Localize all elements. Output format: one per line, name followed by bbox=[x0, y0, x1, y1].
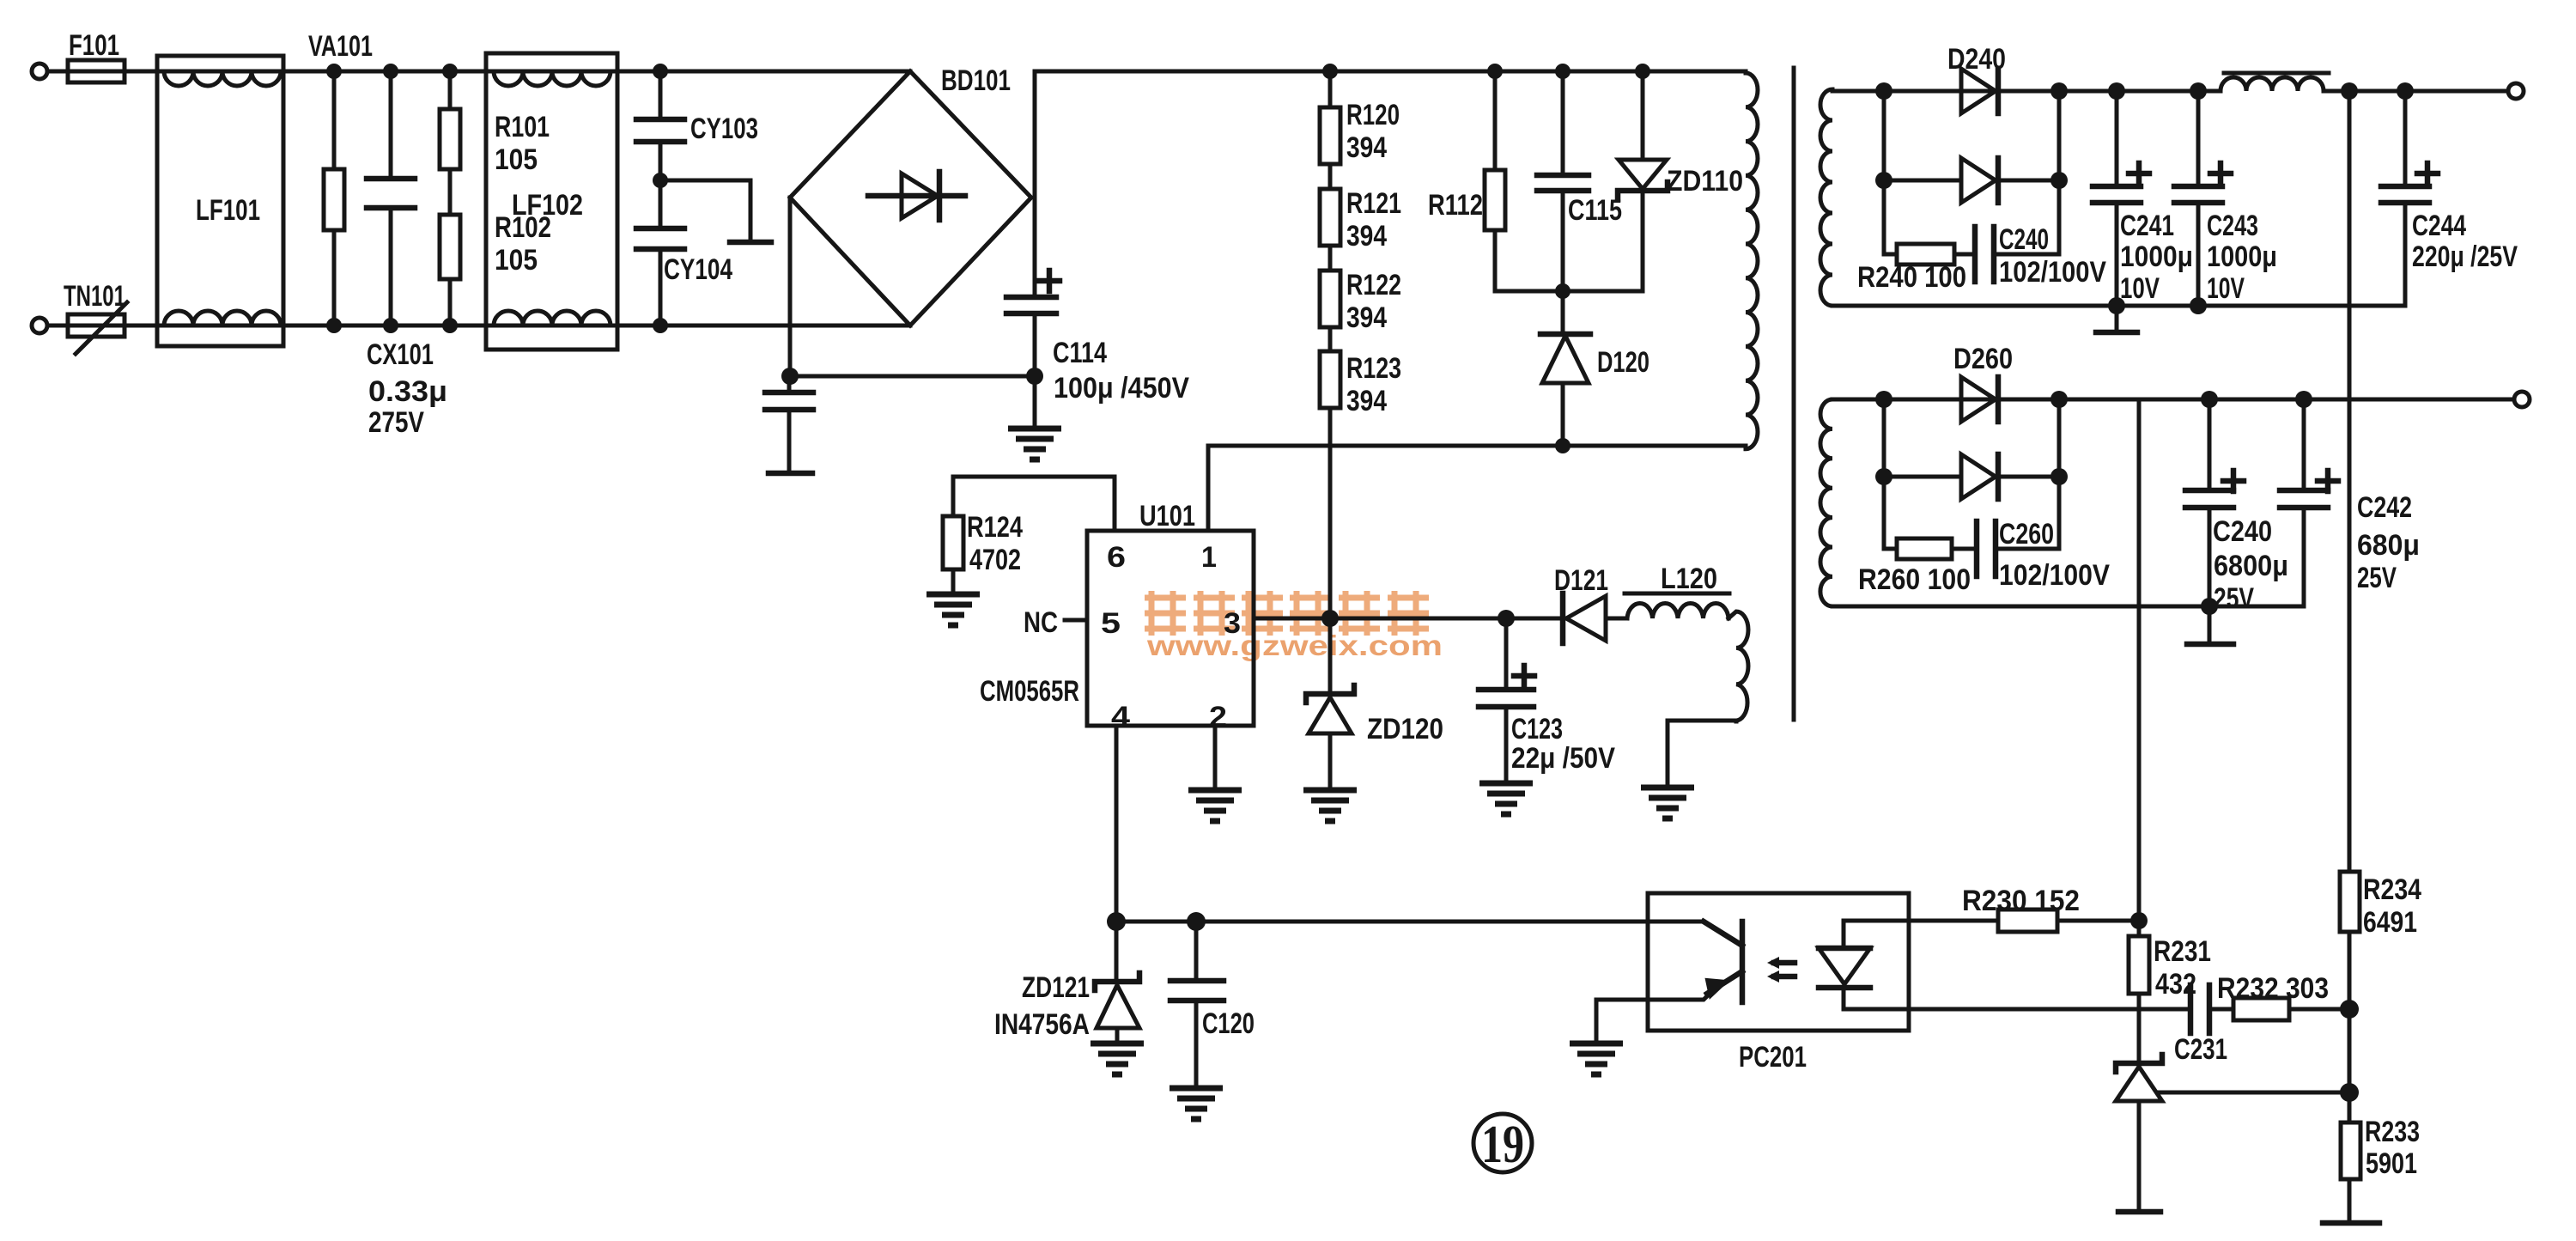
node bbox=[1555, 283, 1571, 299]
svg-text:D121: D121 bbox=[1554, 564, 1608, 597]
capacitor C114 bbox=[1006, 271, 1060, 376]
wire pin6 Vcc bbox=[953, 477, 1115, 531]
wire sense column bbox=[2348, 91, 2352, 872]
varistor VA101 bbox=[324, 71, 344, 325]
svg-text:C120: C120 bbox=[1202, 1007, 1255, 1040]
op-amp U101 box bbox=[1087, 531, 1254, 726]
node bbox=[1875, 82, 1893, 100]
label C241 value bbox=[2120, 210, 2193, 305]
svg-text:4702: 4702 bbox=[969, 544, 1021, 576]
capacitor C123 bbox=[1479, 618, 1534, 783]
svg-text:C123: C123 bbox=[1511, 713, 1563, 745]
svg-text:2: 2 bbox=[1209, 701, 1227, 733]
node bbox=[1635, 64, 1650, 79]
svg-text:D260: D260 bbox=[1953, 343, 2013, 375]
wire pin3 bbox=[1254, 617, 1566, 621]
wire bbox=[125, 70, 157, 74]
output terminal 2 bbox=[2514, 392, 2530, 407]
inductor L120 bbox=[1625, 593, 1729, 618]
thermistor TN101 bbox=[68, 302, 127, 354]
node bbox=[1875, 172, 1893, 189]
zener ZD121 bbox=[1095, 922, 1139, 1043]
svg-text:25V: 25V bbox=[2357, 562, 2397, 594]
wire LED top to R230 bbox=[1909, 919, 1998, 923]
wire bbox=[448, 169, 453, 215]
svg-text:R122: R122 bbox=[1346, 269, 1401, 301]
svg-text:6800μ: 6800μ bbox=[2214, 550, 2288, 582]
resistor R123 bbox=[1320, 351, 1340, 408]
wire NC pin5 bbox=[1065, 618, 1087, 623]
svg-text:R102: R102 bbox=[495, 211, 551, 244]
resistor R234 bbox=[2340, 872, 2360, 1092]
wire pin1 bbox=[1206, 446, 1211, 531]
node bbox=[2050, 391, 2068, 408]
wire bbox=[47, 70, 68, 74]
aux winding bbox=[1728, 611, 1748, 721]
label C114 value bbox=[1053, 337, 1189, 405]
resistor R233 bbox=[2323, 1092, 2379, 1223]
capacitor CY103 bbox=[636, 71, 684, 180]
svg-text:R124: R124 bbox=[967, 511, 1023, 544]
diode D240b bbox=[1884, 158, 2059, 203]
resistor R230 bbox=[1998, 909, 2139, 932]
capacitor C240b bbox=[2185, 399, 2244, 606]
transformer core bbox=[1792, 68, 1796, 720]
svg-text:25V: 25V bbox=[2214, 582, 2254, 615]
label C243 value bbox=[2207, 210, 2277, 305]
svg-text:C240: C240 bbox=[1999, 223, 2049, 256]
resistor R122 bbox=[1320, 271, 1340, 327]
wire bottom rail1 bbox=[1832, 304, 2405, 308]
svg-text:C240: C240 bbox=[2213, 515, 2272, 548]
svg-text:L120: L120 bbox=[1661, 563, 1717, 595]
capacitor C260 bbox=[1977, 521, 2059, 576]
resistor R120 bbox=[1320, 71, 1340, 164]
node bbox=[1107, 912, 1126, 931]
node bbox=[442, 318, 458, 333]
svg-text:R231: R231 bbox=[2154, 935, 2211, 968]
wire DC minus bbox=[790, 374, 1035, 379]
wire pin4 row bbox=[1116, 920, 1704, 924]
node bbox=[1322, 64, 1338, 79]
resistor R112 bbox=[1485, 71, 1505, 291]
label R234 value bbox=[2363, 873, 2421, 939]
node bbox=[326, 318, 342, 333]
ground bbox=[1479, 783, 1533, 814]
node bbox=[2050, 82, 2068, 100]
svg-text:105: 105 bbox=[495, 143, 538, 176]
svg-text:R121: R121 bbox=[1346, 187, 1401, 220]
label CX101 value bbox=[367, 338, 447, 439]
node bbox=[653, 64, 668, 79]
node bbox=[2108, 297, 2125, 314]
wire bbox=[1328, 164, 1333, 189]
svg-text:F101: F101 bbox=[69, 29, 119, 62]
line filter LF102 bbox=[486, 53, 617, 350]
label C123 value bbox=[1511, 713, 1615, 775]
phototransistor bbox=[1596, 922, 1742, 1043]
svg-text:R240 100: R240 100 bbox=[1857, 261, 1966, 294]
svg-text:D240: D240 bbox=[1947, 43, 2006, 76]
secondary winding 1 bbox=[1820, 89, 1832, 306]
output terminal 1 bbox=[2508, 83, 2524, 99]
svg-text:CY104: CY104 bbox=[664, 253, 732, 286]
wire bridge plus rail bbox=[1033, 71, 1037, 297]
svg-text:680μ: 680μ bbox=[2357, 529, 2420, 562]
wire rail1 right bbox=[2324, 89, 2508, 94]
svg-text:6491: 6491 bbox=[2363, 906, 2417, 939]
node bbox=[2340, 1000, 2359, 1019]
node bbox=[653, 173, 668, 188]
LED bbox=[1819, 921, 1909, 1009]
resistor R101 bbox=[440, 71, 460, 169]
svg-text:BD101: BD101 bbox=[941, 64, 1011, 97]
svg-text:105: 105 bbox=[495, 244, 538, 277]
node bbox=[1026, 368, 1043, 385]
node bbox=[2050, 468, 2068, 485]
ground bbox=[1008, 376, 1061, 459]
svg-text:0.33μ: 0.33μ bbox=[368, 375, 447, 408]
node bbox=[1321, 610, 1339, 627]
node bbox=[2050, 172, 2068, 189]
capacitor C241 bbox=[2093, 91, 2149, 306]
label R121 value bbox=[1346, 187, 1401, 252]
svg-text:C231: C231 bbox=[2174, 1033, 2227, 1066]
wire pin2 bbox=[1213, 726, 1218, 790]
wire bbox=[47, 324, 68, 328]
resistor R260 bbox=[1884, 538, 1977, 559]
label R122 value bbox=[1346, 269, 1401, 334]
svg-text:6: 6 bbox=[1107, 541, 1126, 574]
ground bbox=[1570, 1043, 1623, 1074]
ground bbox=[1170, 1088, 1223, 1119]
svg-text:R112: R112 bbox=[1428, 189, 1483, 222]
node bbox=[1875, 468, 1893, 485]
ground bbox=[1641, 788, 1694, 818]
label ZD121 value bbox=[994, 971, 1090, 1041]
node bbox=[1187, 912, 1206, 931]
wire snub right column bbox=[2057, 91, 2062, 254]
svg-text:NC: NC bbox=[1024, 606, 1058, 639]
node bbox=[1487, 64, 1503, 79]
node bbox=[442, 64, 458, 79]
svg-text:R232 303: R232 303 bbox=[2217, 972, 2329, 1005]
input terminal bottom bbox=[32, 318, 47, 333]
label C240b value bbox=[2213, 515, 2288, 615]
capacitor C244 bbox=[2381, 91, 2438, 306]
capacitor C242 bbox=[2280, 399, 2338, 606]
capacitor C240 bbox=[1975, 227, 2059, 282]
wire bbox=[1328, 246, 1333, 271]
svg-text:CM0565R: CM0565R bbox=[980, 675, 1079, 708]
line filter LF101 bbox=[157, 56, 283, 346]
ground stub bbox=[2096, 306, 2137, 332]
ground bbox=[1091, 1043, 1144, 1074]
wire bbox=[125, 324, 157, 328]
label R231 value bbox=[2154, 935, 2211, 1001]
svg-text:PC201: PC201 bbox=[1739, 1041, 1807, 1074]
svg-text:10V: 10V bbox=[2120, 272, 2160, 305]
label C242 value bbox=[2357, 491, 2420, 594]
svg-text:C115: C115 bbox=[1568, 194, 1622, 227]
ground stub bbox=[2187, 606, 2233, 644]
zener ZD110 bbox=[1618, 71, 1668, 291]
diode D121 bbox=[1563, 593, 1627, 643]
wire rail2 bbox=[1832, 398, 2514, 402]
transformer primary winding bbox=[1746, 73, 1758, 449]
diode D260 bbox=[1961, 377, 1998, 422]
wire bbox=[617, 70, 910, 74]
wire top DC rail bbox=[1035, 70, 1746, 74]
wire feedback winding row bbox=[1208, 444, 1746, 448]
ground bbox=[1188, 790, 1242, 821]
svg-text:R120: R120 bbox=[1346, 99, 1400, 131]
svg-text:220μ /25V: 220μ /25V bbox=[2412, 240, 2518, 273]
node bbox=[2190, 82, 2207, 100]
wire bottom rail2 bbox=[1832, 605, 2304, 609]
node bbox=[2201, 391, 2218, 408]
optocoupler PC201 box bbox=[1648, 893, 1909, 1031]
svg-text:4: 4 bbox=[1111, 701, 1130, 733]
node bbox=[653, 318, 668, 333]
node bbox=[2340, 1083, 2359, 1102]
svg-text:1: 1 bbox=[1201, 541, 1217, 574]
svg-text:LF101: LF101 bbox=[196, 194, 260, 227]
resistor R240 bbox=[1884, 244, 1975, 265]
filter inductor bbox=[2221, 73, 2329, 91]
svg-text:275V: 275V bbox=[368, 406, 424, 439]
svg-text:10V: 10V bbox=[2207, 272, 2245, 305]
svg-text:394: 394 bbox=[1346, 385, 1387, 417]
svg-text:C241: C241 bbox=[2120, 210, 2174, 242]
ground bbox=[1303, 790, 1357, 821]
node bbox=[383, 318, 398, 333]
wire pin4 bbox=[1115, 726, 1119, 922]
svg-text:R123: R123 bbox=[1346, 352, 1401, 385]
bridge rectifier BD101 bbox=[790, 71, 1031, 325]
svg-text:C244: C244 bbox=[2412, 210, 2466, 242]
svg-text:394: 394 bbox=[1346, 220, 1387, 252]
diode D240 bbox=[1961, 69, 1998, 113]
svg-text:19: 19 bbox=[1481, 1116, 1524, 1174]
svg-text:D120: D120 bbox=[1597, 346, 1649, 379]
node bbox=[1498, 610, 1515, 627]
secondary winding 2 bbox=[1820, 399, 1832, 606]
svg-text:C114: C114 bbox=[1053, 337, 1107, 369]
resistor R124 bbox=[943, 516, 963, 594]
svg-text:102/100V: 102/100V bbox=[1999, 559, 2110, 592]
label R233 value bbox=[2365, 1116, 2420, 1180]
capacitor CX101 bbox=[367, 71, 415, 325]
label R123 value bbox=[1346, 352, 1401, 417]
diode D260b bbox=[1884, 454, 2059, 499]
svg-text:394: 394 bbox=[1346, 301, 1387, 334]
light arrows bbox=[1767, 957, 1795, 982]
svg-text:R233: R233 bbox=[2365, 1116, 2420, 1148]
capacitor C120 bbox=[1170, 922, 1224, 1088]
watermark bbox=[1145, 591, 1443, 661]
input terminal top bbox=[32, 64, 47, 79]
node bbox=[2397, 82, 2414, 100]
wire snub2 left column bbox=[1882, 399, 1886, 549]
node bbox=[1875, 391, 1893, 408]
svg-text:C260: C260 bbox=[1999, 518, 2054, 551]
svg-text:22μ /50V: 22μ /50V bbox=[1511, 742, 1615, 775]
label C240 value bbox=[1999, 223, 2106, 289]
label C244 value bbox=[2412, 210, 2518, 273]
svg-text:U101: U101 bbox=[1139, 500, 1195, 532]
shunt zener bbox=[2116, 1055, 2162, 1212]
label R102 value bbox=[495, 211, 551, 277]
svg-text:5: 5 bbox=[1101, 607, 1121, 640]
chassis stub wire bbox=[660, 180, 771, 242]
wire snub2 right column bbox=[2057, 399, 2062, 549]
wire aux return bbox=[1668, 721, 1736, 788]
node bbox=[383, 64, 398, 79]
svg-text:R234: R234 bbox=[2363, 873, 2421, 906]
wire bbox=[283, 70, 486, 74]
capacitor CY104 bbox=[636, 180, 684, 325]
svg-text:VA101: VA101 bbox=[308, 30, 373, 63]
node bbox=[2130, 912, 2148, 929]
svg-text:100μ /450V: 100μ /450V bbox=[1054, 372, 1189, 405]
label C260 value bbox=[1999, 518, 2110, 592]
wire zener to divider bbox=[2160, 1091, 2349, 1095]
node bbox=[2201, 598, 2218, 615]
wire bbox=[283, 324, 486, 328]
node bbox=[2341, 82, 2358, 100]
svg-text:R101: R101 bbox=[495, 111, 550, 143]
capacitor C115 bbox=[1537, 71, 1589, 291]
svg-text:394: 394 bbox=[1346, 131, 1387, 164]
svg-text:TN101: TN101 bbox=[64, 280, 125, 313]
svg-text:R230 152: R230 152 bbox=[1962, 885, 2080, 917]
svg-text:ZD120: ZD120 bbox=[1367, 713, 1443, 745]
wire bbox=[1328, 408, 1333, 618]
node bbox=[2108, 82, 2125, 100]
svg-text:1000μ: 1000μ bbox=[2120, 240, 2193, 273]
resistor R121 bbox=[1320, 189, 1340, 246]
label R124 value bbox=[967, 511, 1023, 576]
fuse F101 bbox=[68, 60, 125, 82]
resistor R232 bbox=[2233, 998, 2349, 1020]
wire bbox=[617, 324, 910, 328]
svg-text:CY103: CY103 bbox=[690, 113, 758, 145]
node bbox=[1555, 64, 1571, 79]
svg-text:www.gzweix.com: www.gzweix.com bbox=[1146, 630, 1443, 661]
node bbox=[1555, 438, 1571, 453]
capacitor C231 bbox=[2190, 985, 2233, 1033]
resistor R102 bbox=[440, 215, 460, 325]
wire rail1 bbox=[1832, 89, 2221, 94]
svg-text:CX101: CX101 bbox=[367, 338, 434, 371]
svg-text:5901: 5901 bbox=[2366, 1147, 2417, 1180]
node bbox=[326, 64, 342, 79]
svg-text:C242: C242 bbox=[2357, 491, 2412, 524]
zener ZD120 bbox=[1306, 618, 1354, 790]
node bbox=[2190, 297, 2207, 314]
svg-text:ZD110: ZD110 bbox=[1667, 165, 1743, 198]
node bbox=[781, 368, 799, 385]
svg-text:3: 3 bbox=[1224, 607, 1241, 640]
svg-text:R260 100: R260 100 bbox=[1858, 563, 1971, 596]
label R101 value bbox=[495, 111, 550, 176]
resistor R231 bbox=[2129, 936, 2149, 1065]
ground bbox=[927, 594, 980, 625]
node bbox=[2295, 391, 2312, 408]
capacitor to chassis bbox=[765, 376, 813, 473]
label R120 value bbox=[1346, 99, 1400, 164]
wire bbox=[1328, 327, 1333, 351]
wire snub left column bbox=[1882, 91, 1886, 254]
wire +25V sense drop bbox=[2137, 399, 2142, 936]
diode D120 bbox=[1540, 291, 1590, 446]
svg-text:IN4756A: IN4756A bbox=[994, 1008, 1090, 1041]
capacitor C243 bbox=[2174, 91, 2231, 306]
svg-text:ZD121: ZD121 bbox=[1022, 971, 1090, 1004]
svg-text:102/100V: 102/100V bbox=[1999, 256, 2106, 289]
svg-text:1000μ: 1000μ bbox=[2207, 240, 2277, 273]
wire snubber bottom bbox=[1495, 289, 1643, 294]
wire LED bottom row bbox=[1909, 1007, 2190, 1012]
wire bridge minus drop bbox=[788, 198, 793, 376]
page number 19 bbox=[1473, 1114, 1532, 1174]
svg-text:C243: C243 bbox=[2207, 210, 2258, 242]
